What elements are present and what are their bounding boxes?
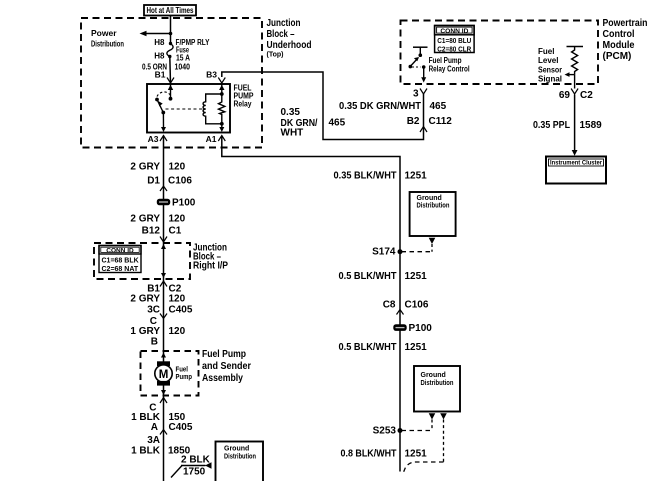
wire dashed second ground branch (403, 413, 447, 473)
svg-text:1251: 1251 (405, 342, 428, 353)
value label F/PMP RLY Fuse 15 A (176, 38, 211, 63)
svg-text:C2=80 CLR: C2=80 CLR (437, 44, 472, 53)
value label 2 BLK 1750 (181, 455, 211, 478)
svg-text:Hot at All Times: Hot at All Times (147, 6, 194, 15)
junction block underhood dashed enclosure (81, 18, 262, 148)
value label 0.35 BLK/WHT 1251 (334, 171, 428, 182)
svg-text:2 GRY: 2 GRY (130, 294, 160, 305)
wire feed from Hot at All Times down to fuse (170, 16, 172, 44)
wire B3 into coil (219, 84, 224, 96)
relay contact pivot (155, 98, 159, 102)
label Fuel Pump and Sender Assembly (202, 349, 251, 384)
svg-text:Signal: Signal (538, 75, 562, 84)
svg-text:C1: C1 (169, 226, 182, 237)
connector ID table C1=68 BLK C2=68 NAT (99, 246, 141, 274)
connector C405 chevron up (160, 430, 167, 435)
svg-text:1 GRY: 1 GRY (130, 326, 160, 337)
wire arrow fuel level sensor signal (565, 72, 575, 77)
value label 1 BLK 1850 (131, 446, 191, 457)
value label 2 GRY 120 third (130, 294, 185, 305)
value label 0.35 DK GRN/WHT 465 (left block) (281, 107, 346, 139)
svg-text:S174: S174 (372, 247, 396, 258)
svg-text:0.5 BLK/WHT: 0.5 BLK/WHT (339, 342, 397, 353)
connector C112 pin B2 labels (407, 116, 453, 127)
resistor in parallel with coil (219, 94, 225, 124)
svg-text:120: 120 (169, 214, 186, 225)
svg-text:1750: 1750 (183, 467, 206, 478)
node junction to Power Distribution (169, 32, 173, 36)
svg-text:3C: 3C (147, 305, 160, 316)
grommet P100 left (157, 198, 196, 209)
value label 1 GRY 120 (130, 326, 185, 337)
fuse F/PMP RLY 15A (167, 42, 173, 58)
node Ground Distribution reference box 1 (410, 192, 456, 236)
svg-text:C2: C2 (580, 90, 593, 101)
svg-text:C112: C112 (429, 116, 453, 127)
svg-text:1589: 1589 (580, 120, 603, 131)
svg-text:Block –: Block – (267, 29, 295, 40)
terminal at pin 69 (571, 89, 578, 95)
svg-text:1040: 1040 (175, 62, 191, 72)
label Junction Block - Underhood (Top) (267, 18, 312, 59)
svg-text:120: 120 (169, 326, 186, 337)
svg-text:2 BLK: 2 BLK (181, 455, 211, 466)
svg-text:S253: S253 (373, 426, 397, 437)
terminal at B3 (218, 78, 225, 84)
label Fuel Pump Relay Control (429, 56, 470, 73)
svg-text:B: B (151, 337, 158, 348)
svg-text:Underhood: Underhood (267, 40, 312, 51)
wire 2 BLK 1750 branch to ground distribution (171, 462, 212, 477)
svg-text:B1: B1 (155, 70, 166, 80)
svg-text:WHT: WHT (281, 128, 304, 139)
svg-text:465: 465 (430, 101, 447, 112)
wire A3 down the left column (163, 136, 165, 481)
svg-text:C8: C8 (383, 300, 396, 311)
svg-text:1251: 1251 (405, 449, 428, 460)
svg-text:C2=68 NAT: C2=68 NAT (102, 266, 139, 273)
svg-text:Distribution: Distribution (91, 39, 124, 49)
resistor fuel level sense pull-up (567, 47, 584, 75)
svg-text:P100: P100 (172, 198, 196, 209)
svg-text:C1=68 BLK: C1=68 BLK (102, 258, 139, 265)
value label 0.5 ORN 1040 (142, 62, 190, 72)
svg-text:3A: 3A (147, 435, 160, 446)
svg-text:Right I/P: Right I/P (193, 261, 228, 272)
svg-text:M: M (159, 369, 169, 381)
node splice S174 (372, 247, 402, 258)
node splice S253 (373, 426, 403, 437)
svg-text:A: A (151, 422, 158, 433)
node Ground Distribution reference box 2 (414, 366, 460, 412)
svg-text:C106: C106 (168, 176, 192, 187)
svg-text:Module: Module (603, 40, 635, 51)
connector C112 chevron (420, 127, 427, 133)
terminal below fuel pump (160, 398, 167, 404)
wire fuse to B1 (169, 57, 172, 84)
svg-text:0.35 PPL: 0.35 PPL (533, 120, 570, 131)
wire sensor signal to pin 69 (574, 75, 576, 89)
terminal at A1 (218, 136, 225, 142)
junction block right I/P dashed enclosure (94, 243, 190, 279)
svg-text:H8: H8 (154, 52, 165, 61)
wire contact to A3 (161, 113, 166, 133)
svg-text:Power: Power (91, 28, 117, 38)
terminal at A3 (160, 136, 167, 142)
svg-text:Junction: Junction (267, 18, 301, 29)
svg-text:Powertrain: Powertrain (603, 18, 648, 29)
svg-text:H8: H8 (154, 38, 165, 47)
svg-text:B3: B3 (206, 70, 217, 80)
connector C405 pin A labels (151, 422, 193, 433)
label Junction Block - Right I/P (193, 243, 228, 272)
svg-text:120: 120 (169, 294, 186, 305)
wire dashed from ground distribution 1 to S174 (402, 238, 435, 252)
value label 0.8 BLK/WHT 1251 (341, 449, 428, 460)
node Ground Distribution reference box 3 (216, 442, 264, 481)
svg-text:Ground: Ground (421, 372, 446, 379)
svg-text:0.8 BLK/WHT: 0.8 BLK/WHT (341, 449, 397, 460)
svg-text:Sensor: Sensor (538, 66, 562, 75)
svg-text:B12: B12 (142, 226, 161, 237)
wire A1 to ground run (0.35 BLK/WHT 1251) (222, 136, 400, 472)
svg-text:CONN ID: CONN ID (106, 248, 134, 255)
value label 0.5 BLK/WHT 1251 lower (339, 342, 428, 353)
svg-text:D1: D1 (147, 176, 160, 187)
svg-text:P100: P100 (409, 323, 433, 334)
svg-text:69: 69 (559, 90, 571, 101)
terminal at B12 (160, 237, 167, 243)
wire through junction block with arrows (161, 244, 166, 278)
relay K1 FUEL PUMP Relay box (147, 84, 230, 133)
wire arrow to Power Distribution (140, 31, 171, 37)
svg-text:Fuel: Fuel (538, 47, 554, 56)
connector C106 pin C8 labels (383, 300, 429, 311)
relay contact dashed arc (157, 92, 170, 97)
svg-text:1251: 1251 (405, 171, 428, 182)
svg-text:0.35 DK GRN/WHT: 0.35 DK GRN/WHT (339, 101, 421, 112)
value label 2 GRY 120 upper (130, 162, 185, 173)
value label 0.35 PPL 1589 (533, 120, 602, 131)
svg-text:2 GRY: 2 GRY (130, 214, 160, 225)
svg-text:3: 3 (413, 89, 419, 100)
label FUEL PUMP Relay (234, 84, 255, 109)
wire B3 to PCM pin 3 (0.35 DK GRN/WHT 465) (222, 72, 424, 140)
svg-text:B2: B2 (407, 116, 420, 127)
svg-text:1 BLK: 1 BLK (131, 446, 161, 457)
node Hot at All Times feed box (144, 5, 196, 16)
wire coil to A1 (219, 122, 224, 132)
svg-text:0.5 BLK/WHT: 0.5 BLK/WHT (339, 271, 397, 282)
terminal at B1 (167, 78, 174, 84)
node Power Distribution label (91, 28, 124, 49)
svg-text:2 GRY: 2 GRY (130, 162, 160, 173)
svg-text:A3: A3 (148, 134, 159, 144)
svg-text:0.35: 0.35 (281, 107, 301, 118)
svg-text:(Top): (Top) (267, 52, 284, 59)
svg-text:Assembly: Assembly (202, 373, 243, 384)
svg-text:CONN ID: CONN ID (440, 28, 468, 35)
terminal at PCM pin 3 (420, 89, 427, 95)
connector ID table C1=80 BLU C2=80 CLR (435, 26, 475, 54)
connector C405 chevron down (160, 314, 167, 319)
svg-text:465: 465 (329, 118, 346, 129)
connector C106 chevron (397, 310, 404, 315)
svg-text:Control: Control (603, 29, 635, 40)
value label 2 GRY 120 lower (130, 214, 185, 225)
fuel pump and sender assembly dashed enclosure (141, 351, 199, 396)
label Powertrain Control Module (PCM) (603, 18, 648, 62)
svg-text:C405: C405 (169, 422, 193, 433)
label Fuel Level Sensor Signal (538, 47, 562, 84)
connector C106 chevron left (160, 186, 167, 191)
relay coil winding (203, 94, 222, 124)
svg-text:120: 120 (169, 162, 186, 173)
svg-text:(PCM): (PCM) (603, 51, 632, 62)
label Fuel Pump (motor) (176, 365, 193, 382)
value label 1 BLK 150 (131, 412, 186, 423)
relay contact common from B1 (168, 84, 173, 101)
svg-text:Ground: Ground (417, 195, 442, 202)
svg-text:Relay Control: Relay Control (429, 64, 470, 73)
svg-text:C106: C106 (405, 300, 429, 311)
pin 69 connector C2 labels (559, 90, 593, 101)
connector C1 pin B12 labels (142, 226, 182, 237)
svg-text:Level: Level (538, 56, 558, 65)
svg-text:0.35 BLK/WHT: 0.35 BLK/WHT (334, 171, 397, 182)
connector C405 pin 3C labels (147, 305, 193, 316)
svg-text:Distribution: Distribution (421, 380, 454, 387)
grommet P100 center (393, 323, 432, 334)
connector C106 pin D1 labels (147, 176, 192, 187)
svg-text:and Sender: and Sender (202, 361, 251, 372)
motor M1 fuel pump (155, 353, 172, 396)
wire 0.35 PPL 1589 to instrument cluster (572, 95, 578, 156)
wire dashed actuation link (166, 108, 203, 110)
terminal below right I/P block (160, 281, 167, 287)
svg-text:Fuel Pump: Fuel Pump (202, 349, 246, 360)
transistor driver switch Fuel Pump Relay Control (409, 47, 428, 82)
value label 0.5 BLK/WHT 1251 (339, 271, 428, 282)
relay contact arm (157, 100, 165, 115)
wire dashed from ground distribution 2 to S253 (402, 413, 435, 430)
node Instrument Cluster box (546, 157, 606, 184)
svg-text:C405: C405 (169, 305, 193, 316)
svg-text:Distribution: Distribution (417, 203, 450, 210)
value label 0.35 DK GRN/WHT 465 (right) (339, 101, 447, 112)
svg-text:Pump: Pump (176, 372, 193, 381)
svg-text:1251: 1251 (405, 271, 428, 282)
svg-text:Instrument Cluster: Instrument Cluster (550, 160, 602, 167)
svg-text:Relay: Relay (234, 100, 252, 109)
connector C2 pin B1 labels (147, 284, 182, 295)
PCM dashed enclosure (401, 21, 599, 85)
svg-text:Ground: Ground (224, 446, 249, 453)
svg-text:A1: A1 (206, 134, 217, 144)
svg-text:Distribution: Distribution (224, 454, 256, 461)
